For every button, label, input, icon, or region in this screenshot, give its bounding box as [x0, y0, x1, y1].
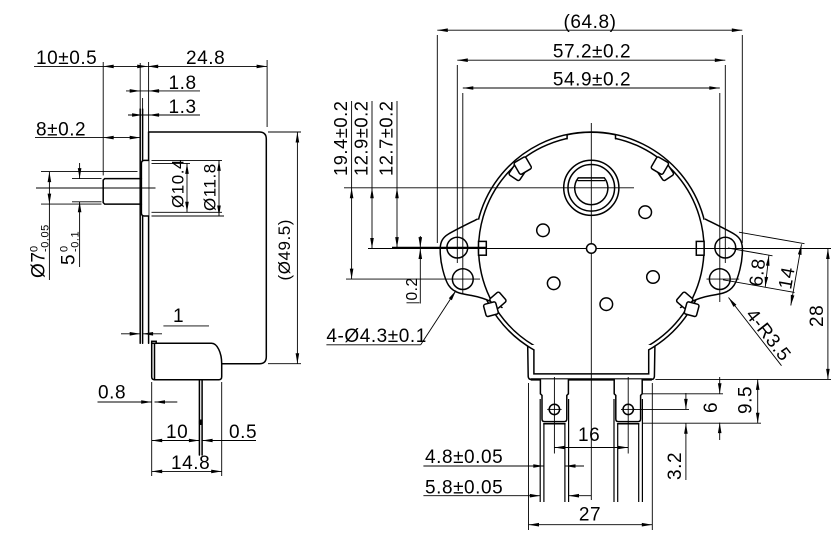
shaft with flat (side) [103, 179, 141, 205]
rivet [549, 404, 559, 414]
svg-text:4.8±0.05: 4.8±0.05 [425, 447, 503, 468]
block centerline [627, 377, 629, 454]
dim 9.5 [655, 378, 761, 380]
svg-text:Ø7: Ø7 [28, 252, 49, 278]
front terminal housing [528, 345, 655, 379]
boss circles [564, 160, 619, 215]
dim 0.2 offset [419, 236, 421, 304]
dim 5 -0.1 (shaft flat) [72, 178, 102, 180]
housing inner wall 0.8 thick [154, 343, 156, 379]
hole line upper (thick) [392, 247, 486, 249]
dim Ø11.8 (boss) [152, 159, 223, 161]
svg-text:12.9±0.2: 12.9±0.2 [351, 101, 372, 176]
svg-text:16: 16 [578, 425, 600, 446]
svg-text:4-Ø4.3±0.1: 4-Ø4.3±0.1 [326, 326, 426, 347]
svg-text:14.8: 14.8 [171, 453, 210, 474]
rim step right [615, 135, 617, 139]
svg-text:24.8: 24.8 [186, 48, 225, 69]
bent tab upper-left [505, 154, 534, 183]
dim Ø10.4 (boss bore) [152, 162, 191, 164]
svg-text:27: 27 [579, 505, 601, 526]
lower hole center line right [707, 278, 740, 280]
svg-text:0.8: 0.8 [98, 383, 126, 404]
svg-text:10±0.5: 10±0.5 [36, 48, 97, 69]
svg-text:0.5: 0.5 [229, 422, 257, 443]
svg-text:-0.1: -0.1 [70, 231, 82, 252]
bent tab upper-right [648, 154, 677, 183]
ear holes 4-Ø4.3 [447, 237, 468, 258]
bent tab lower-right [672, 290, 704, 319]
rim step left [566, 135, 568, 139]
dim 0.8 (housing wall) [98, 401, 152, 403]
svg-text:6: 6 [701, 402, 722, 413]
dim 10 (pin position) [151, 382, 153, 476]
right mounting ear [681, 219, 743, 307]
shaft center line [36, 187, 156, 189]
housing top step [152, 341, 157, 343]
dim 8±0.2 (shaft to plate) [35, 137, 140, 139]
svg-text:(64.8): (64.8) [564, 12, 617, 33]
svg-text:54.9±0.2: 54.9±0.2 [553, 70, 631, 91]
dim 19.4±0.2 [351, 101, 353, 279]
dim 6 [643, 393, 723, 395]
svg-text:12.7±0.2: 12.7±0.2 [376, 101, 397, 176]
svg-text:14: 14 [775, 265, 800, 291]
bearing boss (side) [141, 160, 148, 216]
pin rivet (side) [199, 420, 203, 426]
dim 10±0.5 (shaft length) [102, 62, 104, 175]
front view: body outer rim [475, 132, 708, 350]
dim 12.9±0.2 [371, 101, 373, 249]
svg-text:(Ø49.5): (Ø49.5) [275, 219, 294, 280]
dim 24.8 (body length) [266, 60, 268, 127]
lower hole center line left [346, 278, 480, 280]
dim 1 (plate thickness) [121, 333, 140, 335]
leader 4-Ø4.3±0.1 [326, 344, 420, 346]
dim 1.3 (plate face offset) [142, 98, 144, 112]
svg-text:5: 5 [59, 254, 80, 265]
rim top section cover [567, 132, 615, 142]
svg-text:6.8: 6.8 [746, 257, 770, 287]
dim Ø7 -0.05 (shaft dia) [41, 171, 138, 173]
dim 57.2±0.2 upper holes [456, 65, 458, 263]
housing bottom thick line [531, 378, 652, 380]
bent tab lower-left [478, 290, 510, 319]
dim 27 [528, 383, 530, 530]
left mounting ear [440, 219, 502, 307]
dim 3.2 [634, 408, 689, 410]
gear pilot circles [537, 224, 550, 237]
terminal pin (front) [613, 399, 615, 502]
svg-text:3.2: 3.2 [665, 452, 686, 480]
svg-text:Ø10.4: Ø10.4 [169, 159, 188, 208]
dim 14.8 (housing depth) [221, 382, 223, 476]
svg-text:28: 28 [807, 305, 828, 327]
terminal housing (side) [152, 343, 222, 379]
svg-text:1: 1 [173, 306, 184, 327]
dim 4.8±0.05 [423, 465, 543, 467]
block centerline [553, 377, 555, 454]
svg-text:10: 10 [166, 422, 188, 443]
terminal pin (front) [539, 399, 541, 502]
svg-text:1.3: 1.3 [169, 97, 197, 118]
svg-text:-0.05: -0.05 [39, 224, 51, 252]
svg-text:8±0.2: 8±0.2 [36, 119, 86, 140]
slanted ext lines for 6.8 / 14 [728, 248, 773, 256]
dim 6.8 [765, 255, 769, 287]
svg-text:19.4±0.2: 19.4±0.2 [330, 101, 351, 176]
dim 14 [791, 244, 802, 305]
mounting plate (side) [139, 109, 141, 343]
body inner rim [479, 136, 704, 346]
mid tab left [479, 241, 487, 255]
svg-text:0.2: 0.2 [404, 277, 421, 300]
dim 1.8 (plate offset) [139, 63, 141, 109]
housing inner walls [534, 350, 649, 374]
dim (Ø49.5) body dia [268, 131, 301, 133]
dim 16 [554, 447, 628, 449]
dim 0.5 (pin thickness) [202, 440, 256, 442]
side view: motor body outline [149, 132, 267, 364]
D shaft [575, 178, 608, 205]
svg-text:1.8: 1.8 [169, 73, 197, 94]
center mark [587, 244, 597, 254]
housing outer arc stubs [528, 346, 534, 350]
rivet [623, 404, 633, 414]
terminal blocks [540, 379, 568, 421]
leader 4-R3.5 [729, 298, 782, 366]
dim (64.8) overall width [436, 35, 438, 243]
dim 28 [761, 378, 831, 380]
dim 54.9±0.2 lower holes [462, 93, 464, 294]
terminal pin (side) [198, 380, 200, 455]
center lines [590, 123, 592, 500]
svg-text:5.8±0.05: 5.8±0.05 [425, 478, 503, 499]
svg-text:57.2±0.2: 57.2±0.2 [553, 42, 631, 63]
svg-text:Ø11.8: Ø11.8 [201, 163, 220, 211]
mid tab right [696, 241, 704, 255]
svg-text:9.5: 9.5 [736, 386, 757, 414]
dim 12.7±0.2 [396, 101, 398, 248]
dim 5.8±0.05 [423, 495, 540, 497]
